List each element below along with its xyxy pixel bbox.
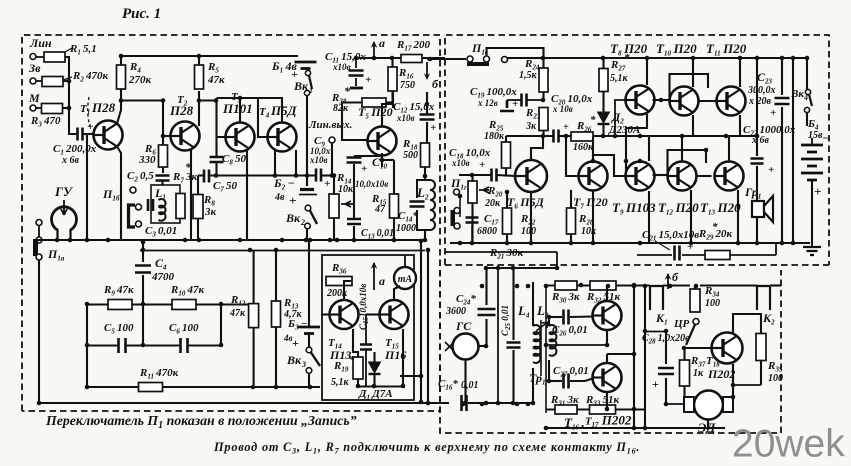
junction bbox=[689, 241, 694, 246]
resistor R17 bbox=[401, 55, 422, 63]
resistor R20 potentiometer bbox=[468, 181, 477, 203]
wire R15 bottom bbox=[393, 218, 395, 240]
svg-text:3600: 3600 bbox=[445, 306, 466, 317]
junction bbox=[591, 159, 596, 164]
wire riser a bbox=[420, 241, 422, 402]
wire emitter join bbox=[546, 344, 607, 346]
junction bbox=[511, 401, 516, 406]
diode D2 bbox=[598, 112, 610, 123]
junction bbox=[85, 302, 90, 307]
svg-text:0,01: 0,01 bbox=[461, 380, 479, 391]
junction bbox=[694, 284, 699, 289]
junction bbox=[805, 56, 810, 61]
wire R19 down bbox=[357, 379, 359, 387]
wire R12 bottom bbox=[253, 328, 255, 387]
svg-text:С8 50: С8 50 bbox=[222, 153, 247, 167]
resistor R1 bbox=[44, 52, 65, 62]
wire C12 to R18 bbox=[426, 122, 428, 143]
wire T9 collector bbox=[648, 136, 650, 161]
wire C24 top bbox=[485, 268, 487, 305]
junction bbox=[423, 174, 428, 179]
terminal P1a top bbox=[36, 220, 42, 226]
terminal P1v right bbox=[484, 56, 490, 62]
terminal near C2 bbox=[130, 187, 136, 193]
svg-text:Т12 П20: Т12 П20 bbox=[658, 200, 699, 217]
junction bbox=[67, 79, 72, 84]
junction bbox=[280, 238, 285, 243]
wire T2 emitter down bbox=[190, 149, 192, 240]
junction bbox=[638, 159, 643, 164]
resistor R19 bbox=[353, 357, 363, 379]
wire R13 down bbox=[275, 327, 277, 387]
junction bbox=[480, 402, 485, 407]
leader R2 bbox=[63, 77, 72, 80]
junction bbox=[106, 238, 111, 243]
junction bbox=[496, 266, 501, 271]
wiper arrow R14 bbox=[341, 201, 354, 207]
wire T17 collector to riser bbox=[607, 353, 634, 355]
dashed border right amplifier box bbox=[445, 35, 829, 265]
wire T13 collector bbox=[728, 136, 730, 162]
resistor R15 bbox=[390, 194, 399, 218]
contact bar P1a bbox=[33, 239, 38, 256]
svg-text:х 6в: х 6в bbox=[61, 155, 80, 166]
wire R16 top bbox=[391, 58, 393, 67]
wire bottom rail left box bbox=[36, 239, 425, 241]
junction bbox=[731, 395, 736, 400]
junction bbox=[547, 379, 552, 384]
wire B3 to Vk3 bbox=[308, 334, 310, 347]
svg-text:R21 30к: R21 30к bbox=[489, 247, 524, 261]
junction bbox=[645, 56, 650, 61]
junction bbox=[511, 266, 516, 271]
svg-text:10к: 10к bbox=[338, 184, 354, 195]
junction bbox=[308, 238, 313, 243]
wire C10 top bbox=[354, 153, 382, 156]
wire T3 collector up bbox=[217, 98, 241, 123]
diode D1 bbox=[369, 362, 381, 373]
svg-text:5,1к: 5,1к bbox=[331, 377, 350, 388]
junction bbox=[214, 173, 219, 178]
svg-text:47к: 47к bbox=[229, 308, 246, 319]
relay contact CR bbox=[693, 319, 699, 325]
wire gen riser 2 bbox=[644, 286, 646, 428]
junction bbox=[425, 102, 430, 107]
capacitor C8 bbox=[210, 157, 224, 162]
resistor R30 bbox=[555, 281, 577, 290]
wire T7 collector up bbox=[592, 136, 594, 162]
svg-text:х10в: х10в bbox=[332, 62, 351, 72]
junction bbox=[85, 238, 90, 243]
resistor R13 bbox=[272, 301, 281, 327]
terminal P1a bottom bbox=[36, 254, 42, 260]
svg-text:+: + bbox=[361, 163, 367, 175]
svg-text:160к: 160к bbox=[573, 142, 594, 153]
junction bbox=[85, 385, 90, 390]
wire R37 bottom bbox=[683, 386, 685, 397]
junction bbox=[141, 248, 146, 253]
wire C17 bottom bbox=[471, 225, 473, 243]
svg-text:Вк: Вк bbox=[286, 353, 302, 367]
svg-text:*: * bbox=[349, 354, 355, 366]
svg-text:тА: тА bbox=[398, 274, 413, 285]
svg-text:1к: 1к bbox=[693, 368, 704, 379]
junction bbox=[605, 407, 610, 412]
wire R21 down bbox=[556, 252, 558, 268]
terminal Lin bbox=[30, 54, 36, 60]
resistor R16 bbox=[388, 67, 397, 91]
terminal head top bbox=[136, 204, 142, 210]
resistor R36 bbox=[326, 277, 352, 286]
resistor R2 bbox=[42, 77, 63, 87]
junction bbox=[555, 266, 560, 271]
junction bbox=[463, 401, 468, 406]
svg-text:х10в: х10в bbox=[309, 155, 328, 165]
wire R23 bottom bbox=[542, 130, 544, 136]
junction bbox=[643, 426, 648, 431]
wire T17 collector bbox=[606, 354, 608, 364]
svg-text:+: + bbox=[430, 122, 436, 134]
arrow a top bbox=[373, 42, 375, 58]
wire T3 emitter down bbox=[246, 150, 248, 240]
junction bbox=[308, 385, 313, 390]
wire R14 top bbox=[333, 176, 335, 195]
svg-text:100: 100 bbox=[768, 373, 783, 384]
wire C4 down bbox=[142, 275, 144, 304]
junction bbox=[305, 173, 310, 178]
capacitor C16 bbox=[462, 395, 467, 411]
junction bbox=[780, 241, 785, 246]
arrow b gen bbox=[667, 274, 669, 289]
svg-text:R10 47к: R10 47к bbox=[170, 284, 205, 298]
svg-text:6800: 6800 bbox=[477, 226, 497, 237]
wire right join bbox=[220, 304, 222, 346]
arrow b down bbox=[426, 62, 428, 76]
transistor T16 bbox=[593, 301, 622, 330]
junction bbox=[304, 238, 309, 243]
resistor R5 bbox=[195, 65, 204, 89]
wire T11 collector bbox=[739, 58, 741, 87]
switch Vk1 bbox=[305, 70, 310, 75]
capacitor C10 bbox=[347, 158, 362, 163]
wire T12 collector bbox=[681, 136, 683, 162]
svg-text:Т7 П20: Т7 П20 bbox=[573, 195, 608, 211]
wire Vk4 to B4 bbox=[806, 112, 808, 126]
bracket P1g bbox=[451, 210, 456, 226]
resistor R25 bbox=[502, 142, 511, 168]
junction bbox=[569, 241, 574, 246]
terminal P1v aux bbox=[502, 57, 508, 63]
junction bbox=[632, 283, 637, 288]
svg-text:R3 470: R3 470 bbox=[30, 115, 61, 129]
resistor R7 bbox=[176, 194, 185, 219]
wire gen top rail b bbox=[663, 284, 690, 286]
svg-text:Т10 П20: Т10 П20 bbox=[656, 41, 697, 58]
wire right rail a top bbox=[781, 58, 783, 95]
wire T8 collector bbox=[646, 58, 648, 85]
junction bbox=[392, 238, 397, 243]
wire R31 R33 row bbox=[546, 408, 645, 410]
svg-text:Т5 П20: Т5 П20 bbox=[358, 105, 393, 121]
wire T1 emitter down bbox=[117, 147, 121, 241]
capacitor C6 bbox=[181, 338, 188, 353]
junction bbox=[531, 401, 536, 406]
wire T9 to T12 base bbox=[653, 174, 668, 176]
screen box around L1 bbox=[151, 185, 180, 223]
svg-text:х10в: х10в bbox=[451, 158, 470, 168]
wire B2 top bbox=[306, 176, 308, 187]
junction bbox=[484, 401, 489, 406]
wire T5 collector to R16 bbox=[382, 91, 393, 127]
svg-text:R9 47к: R9 47к bbox=[103, 284, 134, 298]
connector K1 bbox=[650, 286, 663, 310]
svg-text:Д230А: Д230А bbox=[608, 124, 640, 136]
wire mA meter top bbox=[404, 255, 406, 267]
junction bbox=[423, 238, 428, 243]
speaker Gr1 bbox=[752, 201, 764, 217]
switch linkage dash near T1 bbox=[88, 97, 90, 127]
inductor L3 winding bbox=[549, 325, 556, 356]
wire C25 down bbox=[512, 350, 514, 403]
wire emitter node right bbox=[382, 159, 394, 161]
wire T8 to T10 base bbox=[653, 99, 670, 101]
wire R5 to T2 collector bbox=[198, 91, 200, 126]
wire R25 bottom bbox=[505, 168, 507, 176]
battery B1 bbox=[295, 61, 317, 64]
head GS bbox=[453, 334, 479, 360]
resistor R10 bbox=[172, 300, 196, 310]
wire T4 collector down bbox=[295, 150, 297, 176]
wire T15 collector bbox=[394, 286, 400, 300]
junction bbox=[141, 240, 146, 245]
wire T6 base stub bbox=[497, 175, 515, 176]
junction bbox=[526, 402, 531, 407]
junction bbox=[638, 241, 643, 246]
wire T18 emitter bbox=[732, 364, 734, 397]
svg-text:х 6в: х 6в bbox=[751, 135, 770, 146]
junction bbox=[529, 241, 534, 246]
svg-text:1,5к: 1,5к bbox=[519, 70, 538, 81]
svg-text:1000: 1000 bbox=[396, 223, 416, 234]
svg-text:а: а bbox=[379, 36, 385, 50]
wire T2 base down bbox=[163, 136, 171, 145]
capacitor C26 bbox=[564, 310, 569, 325]
junction bbox=[274, 385, 279, 390]
wire D1 node row bbox=[358, 385, 404, 387]
svg-text:П28: П28 bbox=[91, 100, 116, 115]
wire C21 right bbox=[682, 254, 705, 256]
junction bbox=[219, 343, 224, 348]
junction bbox=[736, 241, 741, 246]
junction bbox=[401, 384, 406, 389]
wire to C28 bbox=[645, 331, 666, 333]
capacitor C19 bbox=[522, 94, 527, 107]
resistor R33 bbox=[590, 405, 616, 414]
svg-text:М: М bbox=[28, 91, 40, 105]
wire T16 collector bbox=[606, 286, 608, 302]
wire a to R17 bbox=[356, 57, 401, 59]
wire B4 down bbox=[811, 180, 813, 247]
svg-text:750: 750 bbox=[400, 80, 415, 91]
svg-text:R11 470к: R11 470к bbox=[139, 367, 179, 381]
junction bbox=[738, 56, 743, 61]
wire to R4 bbox=[120, 89, 122, 101]
svg-text:20wek: 20wek bbox=[732, 423, 845, 466]
junction bbox=[541, 56, 546, 61]
svg-text:+: + bbox=[87, 121, 93, 133]
wire T11 collector to T10 base bbox=[670, 74, 709, 100]
svg-text:ГУ: ГУ bbox=[54, 184, 74, 199]
svg-text:*: * bbox=[590, 114, 596, 126]
junction bbox=[668, 284, 673, 289]
junction bbox=[458, 194, 463, 199]
terminal P1g bbox=[454, 189, 460, 195]
arrow on L3 bbox=[536, 322, 548, 331]
wire T13 emitter bbox=[737, 190, 739, 243]
svg-text:Зв: Зв bbox=[28, 61, 41, 75]
chassis bar under C11 bbox=[350, 87, 363, 90]
svg-text:ЦР: ЦР bbox=[673, 318, 690, 330]
wire C27 to T17 base bbox=[570, 379, 593, 382]
svg-text:10,0х10в: 10,0х10в bbox=[355, 179, 388, 189]
terminal Lin out bbox=[329, 137, 335, 143]
resistor R8 bbox=[193, 195, 203, 219]
junction bbox=[680, 134, 685, 139]
junction bbox=[682, 346, 687, 351]
wire R25 to C20 bbox=[506, 135, 553, 137]
junction bbox=[458, 241, 463, 246]
capacitor C1 bbox=[78, 128, 83, 141]
wire B3 top bbox=[308, 241, 310, 327]
switch Vk3 bbox=[306, 347, 312, 353]
junction bbox=[632, 284, 637, 289]
svg-text:С26 0,01: С26 0,01 bbox=[552, 324, 588, 338]
wire R11 left bbox=[87, 386, 139, 388]
svg-text:+: + bbox=[479, 159, 485, 171]
svg-text:х 20в: х 20в bbox=[748, 96, 772, 107]
junction bbox=[579, 283, 584, 288]
resistor R18 bbox=[421, 143, 430, 167]
wire gen bottom link bbox=[487, 402, 534, 404]
junction bbox=[197, 98, 202, 103]
svg-text:270к: 270к bbox=[128, 74, 152, 86]
wire T7 base bbox=[566, 136, 579, 176]
junction bbox=[755, 134, 760, 139]
capacitor C3 bbox=[148, 199, 153, 211]
wire gen bus mid bbox=[497, 268, 499, 403]
wire second bottom rail bbox=[140, 250, 425, 252]
wire gen top rail bbox=[546, 284, 650, 286]
transistor T11 bbox=[717, 87, 746, 116]
junction bbox=[780, 56, 785, 61]
resistor R22 bbox=[503, 208, 512, 234]
wire emitter bus row bbox=[210, 174, 315, 176]
svg-text:10к: 10к bbox=[581, 226, 597, 237]
wire R5 top bbox=[198, 56, 200, 65]
junction bbox=[419, 400, 424, 405]
wire R24 bottom bbox=[542, 92, 544, 100]
ground right bbox=[803, 247, 821, 255]
junction bbox=[470, 241, 475, 246]
transistor T17 bbox=[593, 363, 622, 392]
wire B1 to B2 bbox=[306, 95, 308, 186]
wire R14 bottom bbox=[333, 218, 335, 240]
capacitor C28 bbox=[658, 368, 674, 374]
resistor R38 bbox=[362, 98, 386, 107]
junction bbox=[328, 238, 333, 243]
wire gen top rail c bbox=[700, 284, 757, 286]
capacitor C12 bbox=[420, 115, 435, 120]
wire C28 top bbox=[665, 333, 667, 364]
svg-text:100: 100 bbox=[705, 298, 720, 309]
junction bbox=[704, 148, 709, 153]
wire R21 link row bbox=[487, 267, 558, 269]
svg-text:4700: 4700 bbox=[151, 271, 175, 283]
leader R1 bbox=[65, 48, 72, 52]
junction bbox=[606, 284, 611, 289]
junction bbox=[526, 284, 531, 289]
wire R26 right bbox=[593, 135, 640, 137]
wire R9 left bbox=[87, 303, 108, 305]
wire R6 to C2 bbox=[162, 167, 164, 173]
wire T16 emitter bbox=[606, 330, 608, 345]
wire R27 top bbox=[602, 58, 604, 68]
wire C8 top bbox=[215, 137, 217, 156]
switch Vk2 bbox=[305, 205, 311, 211]
svg-text:Вк: Вк bbox=[293, 79, 309, 93]
junction bbox=[238, 238, 243, 243]
svg-text:Вк: Вк bbox=[790, 88, 804, 100]
oscillator enclosure bbox=[322, 255, 414, 400]
wire Lin stub bbox=[36, 56, 44, 58]
junction bbox=[197, 54, 202, 59]
head symbol left of L1 bbox=[129, 205, 136, 227]
junction bbox=[724, 134, 729, 139]
switch Vk4 bbox=[805, 89, 810, 94]
wire C15 top bbox=[365, 315, 367, 345]
junction bbox=[484, 344, 489, 349]
connector K2 bbox=[757, 286, 770, 310]
svg-text:3к: 3к bbox=[204, 206, 217, 218]
svg-text:300,0х: 300,0х bbox=[747, 85, 776, 96]
junction bbox=[632, 352, 637, 357]
resistor R35 bbox=[756, 334, 766, 361]
junction bbox=[470, 173, 475, 178]
wire speaker down bbox=[756, 217, 758, 243]
wire gen top rail d bbox=[770, 284, 781, 286]
svg-text:330: 330 bbox=[138, 154, 156, 166]
junction bbox=[547, 315, 552, 320]
wire C5-C6 bbox=[126, 344, 180, 346]
junction bbox=[251, 385, 256, 390]
svg-text:С7 50: С7 50 bbox=[213, 180, 238, 194]
wire R34 top bbox=[694, 286, 696, 290]
resistor R3 bbox=[42, 104, 63, 114]
capacitor C22 bbox=[751, 159, 764, 164]
svg-text:П5Д: П5Д bbox=[270, 103, 298, 118]
junction bbox=[544, 426, 549, 431]
svg-text:R17 200: R17 200 bbox=[396, 39, 431, 53]
wire R20 top bbox=[471, 175, 473, 181]
resistor R11 bbox=[139, 383, 163, 392]
svg-text:*: * bbox=[185, 160, 192, 174]
wire R35 bottom bbox=[760, 361, 762, 385]
wire R37 top bbox=[683, 348, 685, 360]
svg-text:+: + bbox=[768, 164, 774, 176]
wire R4 top bbox=[120, 56, 122, 65]
wire D1 down bbox=[373, 374, 375, 387]
wire bottom rail right box bbox=[450, 242, 810, 244]
